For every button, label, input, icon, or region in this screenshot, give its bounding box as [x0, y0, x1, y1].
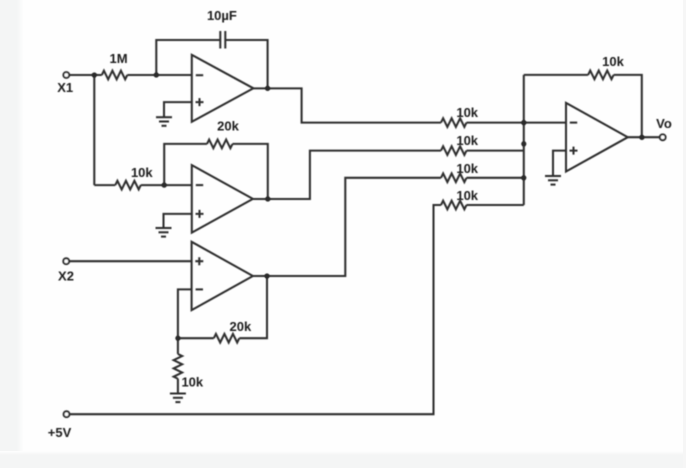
svg-text:10k: 10k: [456, 105, 478, 120]
svg-text:20k: 20k: [230, 319, 252, 334]
svg-text:10k: 10k: [456, 188, 478, 203]
svg-text:Vo: Vo: [656, 116, 672, 131]
svg-text:10k: 10k: [131, 165, 153, 180]
svg-text:1M: 1M: [109, 51, 127, 66]
svg-text:10µF: 10µF: [207, 8, 237, 23]
svg-text:10k: 10k: [181, 375, 203, 390]
svg-text:10k: 10k: [456, 133, 478, 148]
svg-text:10k: 10k: [456, 161, 478, 176]
svg-text:20k: 20k: [217, 119, 239, 134]
svg-text:X2: X2: [58, 268, 74, 283]
svg-text:X1: X1: [57, 80, 73, 95]
svg-text:10k: 10k: [602, 54, 624, 69]
svg-text:+5V: +5V: [48, 425, 72, 440]
